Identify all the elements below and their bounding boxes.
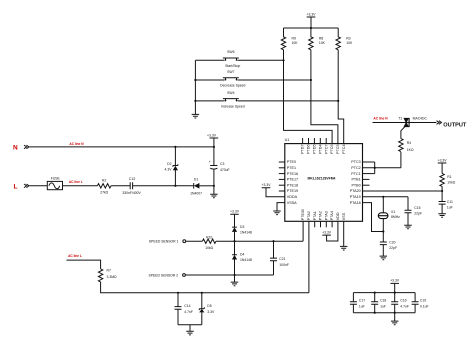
node OUTPUT — [437, 121, 467, 129]
svg-text:C21: C21 — [279, 257, 285, 261]
pin PTA0 — [307, 211, 311, 293]
svg-text:R10: R10 — [206, 236, 212, 240]
node C14 junction — [177, 292, 179, 294]
svg-text:PTC3: PTC3 — [351, 160, 360, 164]
ground below C3 — [210, 186, 218, 198]
capacitor C14 — [175, 293, 193, 325]
wire switch bus — [194, 60, 196, 114]
wire — [111, 185, 130, 187]
svg-text:SW6: SW6 — [227, 50, 234, 54]
pin PTC1 — [351, 172, 374, 176]
svg-text:D5: D5 — [207, 304, 211, 308]
svg-text:R8: R8 — [319, 37, 323, 41]
svg-text:10K: 10K — [292, 41, 299, 45]
svg-text:PTE16: PTE16 — [287, 172, 298, 176]
power +3.3V to VDDA — [262, 183, 285, 197]
pin PTB0 — [351, 183, 369, 187]
resistor R1 — [440, 173, 456, 186]
pin PTE1 — [279, 166, 296, 170]
triac T1 MAC4DC — [398, 116, 427, 127]
diode D3 — [232, 225, 252, 241]
wire triac gate — [401, 127, 405, 139]
wire sensor1 — [186, 240, 203, 242]
svg-text:4.7uF: 4.7uF — [400, 305, 409, 309]
wire AC line N to triac — [373, 116, 437, 122]
svg-text:27kΩ: 27kΩ — [100, 190, 108, 194]
ground VSS — [340, 221, 348, 250]
svg-text:C18: C18 — [380, 299, 386, 303]
pin PTA1 — [313, 211, 317, 227]
ground D4 — [231, 282, 239, 286]
resistor R9 — [281, 28, 298, 50]
svg-text:MKL16Z128VFM4: MKL16Z128VFM4 — [308, 176, 336, 180]
pin PTA19 — [350, 195, 408, 199]
svg-text:PTE18: PTE18 — [287, 183, 298, 187]
svg-text:PTE30: PTE30 — [301, 209, 305, 220]
switch SW7 Decrease Speed — [195, 70, 311, 88]
svg-text:PTD5: PTD5 — [313, 144, 317, 153]
svg-text:SW4: SW4 — [227, 91, 234, 95]
node D3 junction — [233, 240, 235, 242]
power +3.3V above C3 — [207, 133, 218, 147]
wire — [199, 185, 214, 187]
svg-text:22pF: 22pF — [414, 212, 422, 216]
svg-text:U1: U1 — [285, 138, 290, 142]
capacitor C21 — [270, 241, 289, 275]
svg-text:R7: R7 — [107, 268, 111, 272]
svg-text:AC line L: AC line L — [68, 254, 82, 258]
wire AC line L sense — [67, 254, 101, 269]
wire top rail — [284, 27, 339, 29]
svg-text:VDDA: VDDA — [287, 195, 298, 199]
svg-text:C3: C3 — [220, 162, 224, 166]
wire R8 to pin PTC5 — [311, 50, 338, 144]
node D5 junction — [201, 292, 203, 294]
svg-text:PTA18: PTA18 — [350, 201, 361, 205]
power +3.3V to VDD — [322, 221, 338, 241]
svg-text:100nF: 100nF — [279, 263, 289, 267]
svg-text:AC line N: AC line N — [373, 116, 388, 120]
capacitor C19 — [412, 293, 429, 313]
svg-text:3.3MΩ: 3.3MΩ — [107, 275, 118, 279]
svg-text:Increase Speed: Increase Speed — [221, 104, 245, 108]
node dots N/L lines — [174, 146, 176, 148]
pin PTD6 — [307, 138, 311, 154]
svg-text:3.3V: 3.3V — [207, 310, 215, 314]
pin PTE0 — [279, 160, 296, 164]
svg-text:PTC2: PTC2 — [351, 166, 360, 170]
resistor R10 — [202, 236, 216, 250]
node bypass bank junctions — [374, 292, 376, 294]
svg-text:L: L — [14, 183, 18, 190]
svg-text:C17: C17 — [359, 299, 365, 303]
pin PTA3 — [324, 211, 328, 227]
resistor R4 — [399, 139, 414, 152]
svg-text:PTB1: PTB1 — [351, 178, 360, 182]
svg-text:+: + — [209, 160, 211, 164]
svg-text:SPEED SENSOR 1: SPEED SENSOR 1 — [149, 240, 179, 244]
svg-text:+3.3V: +3.3V — [322, 230, 332, 234]
pin PTA2 — [319, 211, 323, 227]
svg-text:OUTPUT: OUTPUT — [443, 122, 467, 128]
svg-text:PTA20: PTA20 — [350, 189, 361, 193]
svg-text:FUSE: FUSE — [51, 177, 61, 181]
svg-text:+3.3V: +3.3V — [230, 210, 240, 214]
svg-text:AC line N: AC line N — [69, 142, 84, 146]
svg-text:SW7: SW7 — [227, 70, 234, 74]
svg-text:10kΩ: 10kΩ — [205, 246, 213, 250]
pin PTC6 — [330, 144, 334, 153]
svg-text:AC line L: AC line L — [69, 180, 83, 184]
svg-text:R2: R2 — [102, 179, 106, 183]
svg-text:R3: R3 — [346, 37, 350, 41]
svg-text:+3.3V: +3.3V — [307, 13, 317, 17]
svg-text:D4: D4 — [240, 253, 244, 257]
pin PTE18 — [279, 183, 298, 187]
svg-text:Decrease Speed: Decrease Speed — [220, 84, 245, 88]
pin PTE19 — [279, 189, 298, 193]
capacitor C3 — [209, 147, 230, 186]
wire R9 to pin PTC6 — [284, 50, 333, 144]
pin PTC5 — [336, 144, 340, 153]
wire AC line L — [63, 180, 98, 186]
wire bypass bank rails — [353, 293, 415, 313]
wire AC line N — [30, 142, 214, 147]
svg-text:C13: C13 — [129, 177, 135, 181]
switch SW6 Start/Stop — [195, 50, 283, 68]
pin PTD7 — [301, 138, 305, 154]
svg-text:PTA4: PTA4 — [330, 211, 334, 220]
svg-text:R1: R1 — [447, 175, 451, 179]
svg-text:PTA3: PTA3 — [324, 211, 328, 220]
svg-text:0.1uF: 0.1uF — [420, 305, 429, 309]
svg-text:C14: C14 — [184, 304, 190, 308]
svg-text:PTA1: PTA1 — [313, 211, 317, 220]
switch SW4 Increase Speed — [195, 91, 338, 109]
zener D2 — [165, 147, 178, 186]
ground switch bus — [192, 114, 200, 118]
pin PTC2 — [351, 166, 401, 170]
svg-text:PTE1: PTE1 — [287, 166, 296, 170]
node D4/sensor2 junction — [233, 274, 235, 276]
pin PTE16 — [279, 172, 298, 176]
svg-text:PTE17: PTE17 — [287, 178, 298, 182]
svg-text:PTD6: PTD6 — [307, 144, 311, 153]
svg-text:SPEED SENSOR 2: SPEED SENSOR 2 — [149, 273, 179, 277]
resistor R3 — [336, 28, 353, 50]
wire bracket PTC3-PTC1 — [374, 162, 376, 174]
svg-text:10K: 10K — [346, 41, 353, 45]
svg-text:PTC6: PTC6 — [330, 144, 334, 153]
svg-text:R4: R4 — [407, 141, 411, 145]
capacitor C16 — [391, 293, 409, 313]
pin PTC7 — [324, 138, 328, 154]
ground C20 — [380, 256, 388, 260]
resistor R7 — [98, 268, 117, 282]
svg-text:PTA19: PTA19 — [350, 195, 361, 199]
node crystal bottom junction — [382, 230, 384, 232]
pin PTA4 — [330, 211, 334, 227]
wire sensor2 — [185, 274, 273, 276]
ground bypass bank — [391, 313, 399, 325]
resistor R2 — [97, 179, 111, 195]
capacitor C18 — [371, 293, 386, 313]
ground VSSA — [273, 203, 285, 215]
node SPEED SENSOR 2 — [149, 273, 186, 277]
capacitor C13 — [122, 177, 141, 195]
svg-text:N: N — [13, 145, 18, 152]
ground C15 — [404, 225, 412, 229]
svg-text:VDD: VDD — [336, 212, 340, 220]
pin PTE17 — [279, 178, 298, 182]
pin PTB1 — [351, 178, 369, 182]
power +3.3V bypass bank — [390, 279, 400, 293]
svg-text:D3: D3 — [240, 225, 244, 229]
node L input — [14, 183, 30, 190]
node PTA20 junction — [441, 190, 443, 192]
svg-text:PTC7: PTC7 — [324, 144, 328, 153]
fuse F1 — [30, 177, 63, 190]
ground C11 — [438, 214, 446, 218]
svg-text:D2: D2 — [167, 162, 171, 166]
svg-text:+3.3V: +3.3V — [438, 158, 448, 162]
capacitor C17 — [350, 293, 365, 313]
svg-text:C11: C11 — [447, 200, 453, 204]
svg-text:330nF/400V: 330nF/400V — [122, 191, 141, 195]
pin VDDA — [287, 195, 298, 199]
pin VSSA — [287, 201, 297, 205]
svg-text:10K: 10K — [319, 41, 326, 45]
svg-text:1uF: 1uF — [359, 305, 365, 309]
svg-text:PTD4: PTD4 — [318, 144, 322, 153]
node N input — [13, 145, 29, 152]
svg-text:1uF: 1uF — [447, 205, 453, 209]
svg-text:PTA0: PTA0 — [307, 211, 311, 220]
op MCU U1 MKL16Z128VFM4 — [285, 138, 363, 221]
svg-text:+3.3V: +3.3V — [390, 279, 400, 283]
svg-text:C16: C16 — [400, 299, 406, 303]
svg-text:PTC5: PTC5 — [336, 144, 340, 153]
wire R7 to PTA0 — [101, 282, 309, 293]
svg-text:C15: C15 — [414, 206, 420, 210]
svg-text:+3.3V: +3.3V — [262, 183, 272, 187]
svg-text:R9: R9 — [292, 37, 296, 41]
svg-text:D1: D1 — [194, 178, 198, 182]
wire R3 to pin PTC4 — [338, 50, 344, 144]
power +3.3V to D3 — [230, 210, 240, 228]
svg-text:4.7nF: 4.7nF — [184, 310, 193, 314]
svg-text:MAC4DC: MAC4DC — [413, 116, 428, 120]
wire R1 to C11 — [441, 186, 443, 201]
svg-text:1N4007: 1N4007 — [190, 192, 202, 196]
svg-text:X1: X1 — [391, 210, 395, 214]
pin PTA18 — [350, 201, 384, 232]
svg-text:PTA2: PTA2 — [319, 211, 323, 220]
capacitor C11 — [439, 200, 453, 214]
capacitor C15 — [405, 197, 423, 225]
node crystal top junction — [382, 196, 384, 198]
wire — [133, 185, 194, 187]
svg-text:1N4148: 1N4148 — [240, 230, 252, 234]
svg-text:PTB0: PTB0 — [351, 183, 360, 187]
svg-text:PTD7: PTD7 — [301, 144, 305, 153]
node junction dots top area — [310, 27, 312, 29]
node C21 junction — [272, 240, 274, 242]
svg-text:PTE19: PTE19 — [287, 189, 298, 193]
wire R4 to PTC2 — [400, 152, 402, 168]
svg-text:+3.3V: +3.3V — [207, 133, 217, 137]
resistor R8 — [309, 28, 326, 50]
svg-text:1uF: 1uF — [380, 305, 386, 309]
pin PTC3 — [351, 160, 374, 164]
pin PTE30 — [301, 209, 305, 241]
crystal X1 8MHz — [378, 197, 400, 232]
svg-text:1N4148: 1N4148 — [240, 258, 252, 262]
ground C14 D5 — [186, 331, 194, 335]
svg-text:C20: C20 — [389, 240, 395, 244]
pin PTA20 — [350, 189, 442, 193]
diode D1 — [190, 178, 202, 196]
pin PTD4 — [318, 138, 322, 154]
pin PTC4 — [342, 144, 346, 153]
svg-text:C19: C19 — [420, 299, 426, 303]
pin VDD — [336, 212, 340, 220]
capacitor C20 — [380, 232, 397, 257]
svg-text:1KΩ: 1KΩ — [407, 148, 414, 152]
svg-text:10kΩ: 10kΩ — [447, 181, 455, 185]
svg-text:PTC1: PTC1 — [351, 172, 360, 176]
svg-text:T1: T1 — [398, 116, 402, 120]
svg-text:VSSA: VSSA — [287, 201, 297, 205]
wire sensor1 to PTE30 — [216, 240, 303, 242]
power +3.3V to R1 — [438, 158, 448, 173]
power +3.3V rail top — [307, 13, 317, 28]
pin VSS — [342, 212, 346, 220]
svg-text:PTC4: PTC4 — [342, 144, 346, 153]
zener D5 — [199, 293, 215, 325]
diode D4 — [232, 241, 252, 282]
svg-text:VSS: VSS — [342, 212, 346, 220]
svg-text:Start/Stop: Start/Stop — [225, 64, 240, 68]
svg-text:PTE0: PTE0 — [287, 160, 296, 164]
node SPEED SENSOR 1 — [149, 240, 186, 244]
svg-text:470uF: 470uF — [220, 168, 230, 172]
svg-text:4.3V: 4.3V — [165, 168, 173, 172]
svg-text:22pF: 22pF — [389, 246, 397, 250]
wire bottom of C14 D5 — [178, 325, 202, 332]
pin PTD5 — [313, 138, 317, 154]
svg-text:8MHz: 8MHz — [391, 215, 400, 219]
